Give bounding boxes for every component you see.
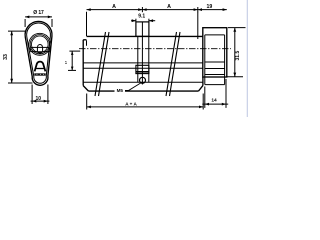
svg-text:Ø 17: Ø 17 [33,10,44,16]
body side view outline [83,36,203,91]
svg-text:9.1: 9.1 [138,14,145,20]
svg-text:19: 19 [207,4,213,10]
svg-text:33: 33 [3,54,9,60]
cam lower hub [136,65,149,73]
M5 leader [125,83,141,91]
dimension Ø17 line [25,16,52,28]
dimension 10 bottom [31,85,50,105]
knob front outline outer [25,21,52,85]
cam gap verticals [137,36,139,82]
knob side view outer [203,28,227,77]
dimension 31.5 [226,28,246,77]
cam center line [141,22,143,85]
knob front outline inner [27,23,51,83]
top dimension line A A 19 [87,7,227,39]
break slash left [95,32,109,96]
cam top [136,22,149,37]
page edge artifact [247,0,248,117]
small face dimension 17 [68,51,80,70]
body internal line web top [83,67,203,69]
break slash right [166,32,180,96]
ABUS micro text [34,73,45,75]
label M5 backing [115,88,126,93]
svg-text:A: A [167,4,171,10]
svg-text:A + A: A + A [125,102,137,107]
ABUS logo A [35,62,46,72]
svg-text:A: A [112,4,116,10]
axis centerline [79,48,231,50]
body internal line web bottom [83,81,203,83]
svg-text:31.5: 31.5 [235,51,241,61]
M5 screw hole [140,77,146,83]
svg-text:14: 14 [211,98,217,104]
svg-text:M5: M5 [117,88,124,93]
dimension A+A bottom [87,94,204,110]
knob inner contour and stem [205,35,225,85]
thumbturn collar rings [29,33,51,55]
dimension 33 vertical [8,31,33,83]
thumbturn grip wings [31,45,50,54]
knob grip ridges [205,62,225,75]
dimension 14 bottom [202,79,228,108]
dimension 9.1 [131,19,155,22]
svg-text:10: 10 [36,96,42,102]
body internal line barrel bottom [83,62,203,64]
